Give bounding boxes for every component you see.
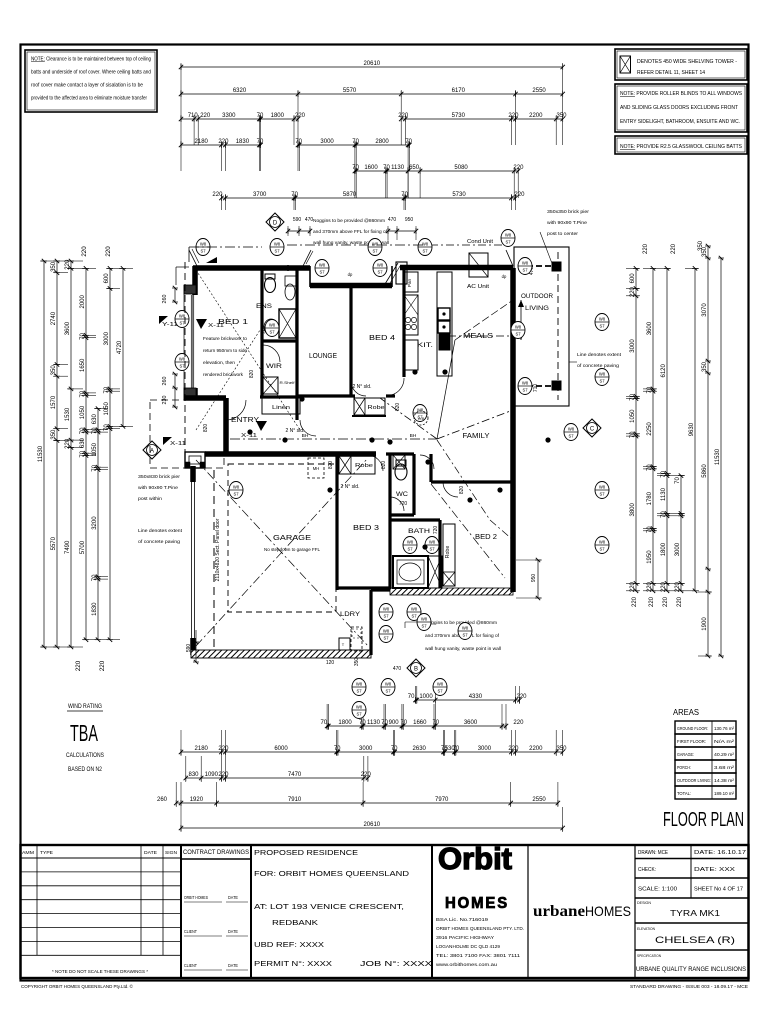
- svg-text:C: C: [590, 427, 595, 433]
- wall: ens/wir block left: [295, 268, 298, 420]
- svg-text:W8: W8: [599, 485, 606, 490]
- svg-text:710: 710: [188, 113, 199, 119]
- wall: top exterior bed1/ens: [193, 265, 310, 271]
- svg-text:2 N° sld.: 2 N° sld.: [286, 428, 305, 434]
- title block frame: [21, 845, 749, 978]
- svg-text:AT: LOT 193 VENICE CRESCENT,: AT: LOT 193 VENICE CRESCENT,: [254, 902, 404, 911]
- svg-text:TYPE: TYPE: [40, 850, 53, 855]
- dim 470/950 ticks: [386, 226, 418, 240]
- svg-text:1050: 1050: [92, 442, 98, 456]
- svg-text:130.76 m²: 130.76 m²: [714, 726, 734, 731]
- svg-text:3000: 3000: [478, 746, 492, 752]
- svg-text:70: 70: [405, 139, 412, 145]
- svg-text:70: 70: [291, 192, 298, 198]
- svg-text:220: 220: [361, 772, 372, 778]
- svg-text:W8: W8: [200, 242, 207, 247]
- svg-text:W8: W8: [429, 540, 436, 545]
- dim right c5: [685, 266, 699, 593]
- svg-text:720: 720: [433, 526, 439, 535]
- svg-text:6170: 6170: [452, 88, 466, 94]
- svg-text:820: 820: [459, 486, 465, 495]
- svg-text:URBANE QUALITY RANGE INCLUSION: URBANE QUALITY RANGE INCLUSIONS: [636, 967, 746, 973]
- svg-text:70: 70: [391, 746, 398, 752]
- svg-text:350: 350: [556, 746, 567, 752]
- section marker D: [266, 213, 284, 231]
- bed2 top wall: [431, 454, 513, 482]
- svg-text:NOTE: PROVIDE R2.5 GLASSWOOL C: NOTE: PROVIDE R2.5 GLASSWOOL CEILING BAT…: [620, 144, 743, 150]
- svg-text:S7: S7: [377, 270, 383, 275]
- bed1 feature brickwork note: [203, 336, 247, 378]
- svg-text:roof cover make contact a laye: roof cover make contact a layer of sisal…: [31, 83, 143, 89]
- svg-text:1660: 1660: [413, 720, 427, 726]
- svg-text:220: 220: [647, 581, 653, 592]
- svg-text:5730: 5730: [452, 113, 466, 119]
- svg-text:X-11: X-11: [241, 433, 257, 439]
- linen box: [262, 398, 300, 414]
- svg-text:5700: 5700: [80, 540, 86, 554]
- svg-text:230: 230: [162, 396, 168, 405]
- svg-text:1830: 1830: [92, 602, 98, 616]
- svg-text:W8: W8: [437, 682, 444, 687]
- bed2 diagonal: [431, 484, 505, 578]
- svg-text:220: 220: [661, 581, 667, 592]
- svg-text:1780: 1780: [647, 491, 653, 505]
- contract drawings cell: [181, 845, 251, 978]
- svg-text:220: 220: [671, 243, 677, 254]
- svg-text:W8: W8: [269, 323, 276, 328]
- cond unit dash line: [430, 239, 510, 245]
- svg-text:3600: 3600: [647, 321, 653, 335]
- svg-text:CHELSEA (R): CHELSEA (R): [655, 935, 735, 945]
- svg-text:PROPOSED RESIDENCE: PROPOSED RESIDENCE: [254, 848, 358, 857]
- svg-text:820: 820: [203, 424, 209, 433]
- dim top row2: [179, 88, 565, 119]
- svg-text:70: 70: [80, 427, 86, 434]
- svg-text:rendered brickwork: rendered brickwork: [203, 372, 244, 378]
- svg-text:2800: 2800: [375, 139, 389, 145]
- svg-text:DATE: DATE: [144, 850, 157, 855]
- svg-text:5730: 5730: [452, 192, 466, 198]
- svg-text:70: 70: [320, 720, 327, 726]
- svg-text:N/A m²: N/A m²: [714, 739, 735, 744]
- dim top row5 right: [406, 165, 524, 198]
- svg-text:S7: S7: [233, 492, 239, 497]
- svg-text:S7: S7: [421, 624, 427, 629]
- svg-text:S7: S7: [269, 330, 275, 335]
- svg-text:CONTRACT DRAWINGS: CONTRACT DRAWINGS: [183, 849, 249, 856]
- svg-text:LOGANHOLME DC QLD 4129: LOGANHOLME DC QLD 4129: [436, 944, 501, 949]
- svg-text:Line denotes extent: Line denotes extent: [138, 528, 183, 534]
- svg-text:BSA Lic. No.716019: BSA Lic. No.716019: [436, 917, 489, 922]
- svg-text:2200: 2200: [529, 113, 543, 119]
- outdoor living paving outline: [514, 247, 569, 406]
- svg-text:S7: S7: [505, 240, 511, 245]
- door arcs: [226, 378, 458, 511]
- svg-text:FIRST FLOOR:: FIRST FLOOR:: [677, 739, 706, 744]
- dim left small 230/260: [162, 286, 178, 409]
- svg-text:TEL: 3801 7100 FAX: 3801 7111: TEL: 3801 7100 FAX: 3801 7111: [436, 953, 521, 958]
- svg-text:820: 820: [328, 461, 334, 470]
- dim top row6: [212, 192, 525, 210]
- dim bot rowB: [320, 704, 524, 730]
- svg-text:3070: 3070: [702, 303, 708, 317]
- svg-text:* NOTE DO NOT SCALE THESE DRAW: * NOTE DO NOT SCALE THESE DRAWINGS *: [52, 969, 148, 974]
- svg-text:S7: S7: [385, 689, 391, 694]
- svg-text:S7: S7: [411, 614, 417, 619]
- kitchen pantry column: [404, 272, 418, 370]
- dim right c6: [698, 244, 712, 658]
- svg-text:2180: 2180: [195, 139, 209, 145]
- svg-text:W8: W8: [356, 682, 363, 687]
- svg-text:1130: 1130: [367, 720, 381, 726]
- svg-text:S7: S7: [599, 492, 605, 497]
- svg-text:70: 70: [661, 511, 667, 518]
- svg-text:6000: 6000: [274, 746, 288, 752]
- svg-text:830: 830: [188, 772, 199, 778]
- vr.b marker: [414, 411, 428, 425]
- svg-text:220: 220: [514, 192, 525, 198]
- svg-text:dp: dp: [502, 274, 507, 279]
- svg-text:CLIENT: CLIENT: [184, 963, 197, 968]
- svg-text:S7: S7: [422, 249, 428, 254]
- wall: top exterior kit/meals: [400, 266, 513, 268]
- svg-text:WIND RATING: WIND RATING: [68, 704, 102, 710]
- svg-text:350x350 brick pier: 350x350 brick pier: [547, 209, 589, 215]
- svg-text:70: 70: [408, 694, 415, 700]
- svg-text:2 N° sld.: 2 N° sld.: [341, 484, 360, 490]
- svg-text:220: 220: [218, 772, 229, 778]
- brick pier note left: [138, 474, 180, 502]
- dim top row4 mid: [295, 139, 412, 171]
- wall: left exterior bed1: [184, 266, 196, 400]
- svg-text:70: 70: [630, 393, 636, 400]
- svg-text:W8: W8: [522, 261, 529, 266]
- svg-text:1050: 1050: [80, 405, 86, 419]
- wir walls: [260, 395, 297, 398]
- svg-text:220: 220: [65, 259, 71, 270]
- dim 590/470 ticks: [286, 226, 312, 236]
- entry porch dashes: [150, 400, 224, 468]
- svg-text:350: 350: [51, 261, 57, 272]
- svg-text:350: 350: [698, 240, 704, 251]
- svg-text:www.orbithomes.com.au: www.orbithomes.com.au: [436, 962, 498, 967]
- svg-text:220: 220: [632, 596, 638, 607]
- svg-text:220: 220: [675, 581, 681, 592]
- svg-text:X-11: X-11: [170, 441, 186, 447]
- svg-text:LDRY: LDRY: [340, 611, 361, 618]
- svg-text:220: 220: [295, 113, 306, 119]
- svg-text:S7: S7: [522, 388, 528, 393]
- issue line: [630, 984, 748, 990]
- svg-text:1570: 1570: [51, 395, 57, 409]
- svg-text:220: 220: [398, 113, 409, 119]
- svg-text:220: 220: [212, 192, 223, 198]
- svg-text:20610: 20610: [363, 61, 380, 67]
- wall: garage left + sectional door opening: [192, 466, 195, 655]
- svg-text:2550: 2550: [532, 797, 546, 803]
- svg-text:AMM: AMM: [22, 850, 34, 855]
- svg-text:220: 220: [218, 139, 229, 145]
- svg-text:S7: S7: [179, 321, 185, 326]
- dim right c7 11530: [715, 256, 724, 658]
- bath X bench: [428, 556, 442, 588]
- svg-text:W8: W8: [319, 263, 326, 268]
- room label ENS: [256, 303, 273, 310]
- svg-text:7970: 7970: [435, 797, 449, 803]
- bulkhead dash-dot: [230, 433, 437, 439]
- dim top row3 right: [398, 113, 567, 145]
- wall: recessed lounge front: [310, 266, 392, 287]
- svg-text:Linen: Linen: [272, 405, 290, 411]
- svg-text:Cond Unit: Cond Unit: [467, 239, 494, 245]
- svg-text:70: 70: [647, 386, 653, 393]
- wall: ldry right: [369, 590, 372, 655]
- svg-text:1130: 1130: [661, 487, 667, 501]
- ens toilet: [265, 274, 276, 293]
- dim left col5: [92, 406, 108, 642]
- svg-text:S7: S7: [407, 547, 413, 552]
- outdoor living brick piers: [552, 262, 561, 390]
- room label BED 1: [218, 317, 248, 326]
- svg-text:LIVING: LIVING: [525, 305, 549, 312]
- section marker C: [583, 419, 601, 437]
- svg-text:5570: 5570: [343, 88, 357, 94]
- svg-text:600: 600: [630, 273, 636, 284]
- room label LOUNGE: [309, 351, 337, 360]
- svg-text:BH: BH: [410, 433, 417, 439]
- svg-text:70: 70: [80, 390, 86, 397]
- svg-text:950: 950: [531, 574, 537, 583]
- meals dash-dot: [448, 335, 512, 337]
- concrete paving note left: [138, 528, 183, 545]
- svg-text:70: 70: [80, 450, 86, 457]
- room label ENTRY: [231, 417, 259, 424]
- svg-text:GROUND FLOOR:: GROUND FLOOR:: [677, 726, 708, 731]
- bed1 diagonal: [196, 270, 300, 430]
- svg-text:DATE: DATE: [228, 929, 238, 934]
- section marker B: [407, 659, 425, 677]
- svg-text:TYRA MK1: TYRA MK1: [670, 909, 721, 918]
- room label MEALS: [463, 331, 493, 340]
- svg-text:W8: W8: [383, 629, 390, 634]
- svg-text:W8: W8: [599, 372, 606, 377]
- svg-text:70: 70: [352, 165, 359, 171]
- areas table: [673, 708, 736, 799]
- wall: bed1 bottom / porch: [184, 398, 226, 455]
- svg-text:W8: W8: [385, 682, 392, 687]
- svg-text:DATE: 16.10.17: DATE: 16.10.17: [694, 850, 746, 856]
- amendments table: [21, 845, 182, 978]
- wc vanity x-box: [393, 455, 405, 469]
- dim bot rowD: [184, 756, 372, 782]
- svg-text:40.29 m²: 40.29 m²: [714, 752, 735, 757]
- svg-text:220: 220: [508, 746, 519, 752]
- dim 590 garage ticks: [193, 630, 199, 664]
- room label LDRY: [340, 611, 361, 618]
- svg-text:70: 70: [104, 386, 110, 393]
- proposed residence cell: [254, 845, 432, 978]
- svg-text:batts and underside of roof co: batts and underside of roof cover. Where…: [31, 70, 151, 76]
- svg-text:X-11: X-11: [208, 323, 224, 329]
- dim left 4720: [117, 266, 133, 428]
- svg-text:470: 470: [388, 217, 397, 223]
- svg-text:9630: 9630: [689, 422, 695, 436]
- dim right c2: [643, 266, 657, 593]
- left block bottom labels: [75, 246, 112, 671]
- bay eave dashed line: [176, 262, 189, 452]
- svg-text:220: 220: [65, 438, 71, 449]
- svg-text:UBD REF: XXXX: UBD REF: XXXX: [254, 940, 324, 949]
- svg-text:220: 220: [513, 165, 524, 171]
- room label WIR: [266, 363, 282, 370]
- svg-text:70: 70: [647, 526, 653, 533]
- svg-text:Robe: Robe: [368, 405, 385, 411]
- svg-text:70: 70: [334, 746, 341, 752]
- svg-text:Feature brickwork to: Feature brickwork to: [203, 336, 247, 342]
- svg-text:wall hung vanity, waste point: wall hung vanity, waste point in wall: [425, 646, 501, 652]
- svg-text:W8: W8: [462, 626, 469, 631]
- wall: ens bottom: [262, 268, 297, 397]
- svg-text:220: 220: [630, 581, 636, 592]
- svg-text:11530: 11530: [38, 445, 44, 462]
- svg-text:350x830 brick pier: 350x830 brick pier: [138, 474, 180, 480]
- svg-text:STANDARD DRAWING - ISSUE 003 -: STANDARD DRAWING - ISSUE 003 - 18.09.17 …: [630, 984, 748, 990]
- svg-text:2550: 2550: [532, 88, 546, 94]
- svg-text:950: 950: [405, 217, 414, 223]
- svg-text:3600: 3600: [464, 720, 478, 726]
- svg-text:3000: 3000: [675, 542, 681, 556]
- ldry fixtures: [339, 627, 362, 651]
- svg-text:350: 350: [702, 361, 708, 372]
- wall: lounge/bed4 divider: [349, 286, 352, 396]
- svg-text:S7: S7: [372, 249, 378, 254]
- bath fixtures: tub: [393, 556, 428, 588]
- svg-text:70: 70: [381, 720, 388, 726]
- svg-text:1600: 1600: [364, 165, 378, 171]
- svg-text:COPYRIGHT ORBIT HOMES QUEENSLA: COPYRIGHT ORBIT HOMES QUEENSLAND Pty.Ltd…: [21, 983, 133, 990]
- svg-text:DATE: DATE: [228, 963, 238, 968]
- svg-text:and 370mm above FFL for fixing: and 370mm above FFL for fixing of: [313, 229, 388, 235]
- bed3 robe: [339, 456, 375, 474]
- svg-text:5870: 5870: [343, 192, 357, 198]
- svg-text:DATE: XXX: DATE: XXX: [694, 867, 735, 873]
- ens vanity: [264, 276, 296, 335]
- note box: ceiling batts clearance: [25, 50, 157, 112]
- svg-text:350: 350: [51, 365, 57, 376]
- svg-text:provided to the affected area: provided to the affected area to elimina…: [31, 96, 147, 102]
- svg-text:350: 350: [51, 429, 57, 440]
- svg-text:220: 220: [516, 694, 527, 700]
- svg-text:1650: 1650: [80, 358, 86, 372]
- svg-text:W8: W8: [383, 607, 390, 612]
- svg-text:7910: 7910: [288, 797, 302, 803]
- svg-text:TBA: TBA: [70, 720, 98, 746]
- dim bot rowE: [157, 782, 560, 807]
- svg-text:4720: 4720: [117, 340, 123, 354]
- room label FAMILY: [463, 431, 490, 440]
- svg-text:3916 PACIFIC HIGHWAY: 3916 PACIFIC HIGHWAY: [436, 935, 494, 940]
- svg-text:820: 820: [395, 403, 401, 412]
- room label KIT.: [417, 342, 433, 349]
- svg-text:710: 710: [533, 384, 539, 393]
- svg-text:3300: 3300: [222, 113, 236, 119]
- svg-text:ENS: ENS: [256, 303, 273, 310]
- svg-text:elevation, then: elevation, then: [203, 360, 235, 366]
- bed3 walls: [337, 454, 390, 588]
- svg-text:BED 3: BED 3: [353, 523, 379, 532]
- wall: top corner splays: [189, 249, 513, 285]
- svg-text:Vr.B: Vr.B: [418, 417, 425, 421]
- svg-text:220: 220: [643, 243, 649, 254]
- svg-text:70: 70: [661, 470, 667, 477]
- svg-text:FAMILY: FAMILY: [463, 431, 490, 440]
- svg-text:2000: 2000: [80, 294, 86, 308]
- svg-text:ORBIT HOMES QUEENSLAND PTY. LT: ORBIT HOMES QUEENSLAND PTY. LTD.: [436, 926, 524, 931]
- svg-text:S7: S7: [319, 270, 325, 275]
- wall: garage front: [205, 451, 376, 457]
- svg-text:DATE: DATE: [228, 895, 238, 900]
- svg-text:B: B: [414, 667, 418, 673]
- svg-text:of concrete paving: of concrete paving: [138, 539, 180, 545]
- svg-text:Robe: Robe: [355, 463, 373, 469]
- svg-text:70: 70: [92, 427, 98, 434]
- svg-text:BED 2: BED 2: [475, 532, 497, 541]
- svg-text:Line denotes extent: Line denotes extent: [577, 352, 622, 358]
- dim top row3 left: [179, 113, 306, 145]
- electrical dots: [247, 369, 550, 549]
- wall: lounge-bed4 bottom + robe: [297, 396, 395, 416]
- ac unit: [467, 253, 490, 290]
- svg-text:TOTAL:: TOTAL:: [677, 791, 691, 796]
- dim right c4: [671, 473, 685, 593]
- svg-text:S7: S7: [437, 689, 443, 694]
- svg-text:630: 630: [80, 437, 86, 448]
- note box: roller blinds: [615, 84, 747, 132]
- svg-text:70: 70: [80, 333, 86, 340]
- svg-text:NOTE: PROVIDE ROLLER BLINDS TO: NOTE: PROVIDE ROLLER BLINDS TO ALL WINDO…: [620, 91, 743, 97]
- svg-text:W8: W8: [505, 233, 512, 238]
- room label GARAGE: [273, 533, 311, 542]
- svg-text:CALCULATIONS: CALCULATIONS: [66, 753, 104, 759]
- svg-text:220: 220: [75, 660, 82, 671]
- meals wall arrow: [518, 300, 524, 340]
- svg-text:WIR: WIR: [266, 363, 282, 370]
- wc walls: [390, 454, 414, 515]
- dim right c1: [626, 266, 640, 593]
- svg-text:470: 470: [393, 666, 402, 672]
- svg-text:OUTDOOR LIVING:: OUTDOOR LIVING:: [677, 778, 711, 783]
- svg-text:220: 220: [630, 286, 636, 297]
- svg-text:260: 260: [157, 797, 168, 803]
- svg-text:ENTRY: ENTRY: [231, 417, 259, 424]
- svg-text:Orbit: Orbit: [438, 841, 512, 876]
- svg-text:6120: 6120: [661, 363, 667, 377]
- svg-text:120: 120: [326, 660, 335, 666]
- svg-text:5080: 5080: [454, 165, 468, 171]
- svg-text:CLIENT: CLIENT: [184, 929, 197, 934]
- svg-text:S7: S7: [200, 249, 206, 254]
- svg-text:GARAGE: GARAGE: [273, 533, 311, 542]
- brick pier note right: [540, 209, 589, 266]
- garage door dashed: [215, 518, 221, 581]
- drawing info cells: [635, 845, 749, 973]
- porch pier 350x830: [185, 452, 205, 468]
- wind rating block: [66, 704, 104, 773]
- svg-text:AND SLIDING GLASS DOORS EXCLUD: AND SLIDING GLASS DOORS EXCLUDING FRONT: [620, 105, 739, 111]
- svg-text:S7: S7: [429, 547, 435, 552]
- garage dashed inset: [228, 464, 336, 612]
- svg-text:W8: W8: [411, 607, 418, 612]
